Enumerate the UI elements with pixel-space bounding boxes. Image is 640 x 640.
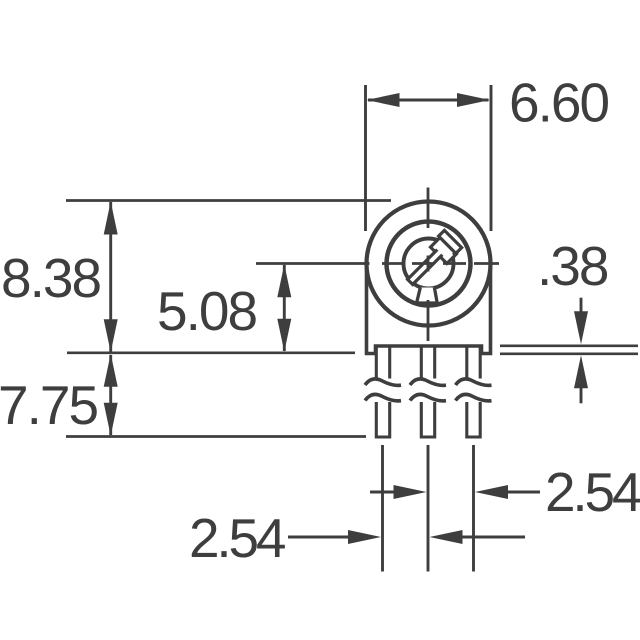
svg-text:2.54: 2.54	[189, 507, 285, 569]
svg-text:5.08: 5.08	[157, 280, 256, 342]
svg-text:8.38: 8.38	[1, 247, 100, 309]
svg-text:6.60: 6.60	[509, 72, 608, 134]
svg-text:.38: .38	[537, 235, 608, 297]
svg-text:2.54: 2.54	[545, 461, 640, 523]
svg-text:7.75: 7.75	[0, 374, 97, 436]
